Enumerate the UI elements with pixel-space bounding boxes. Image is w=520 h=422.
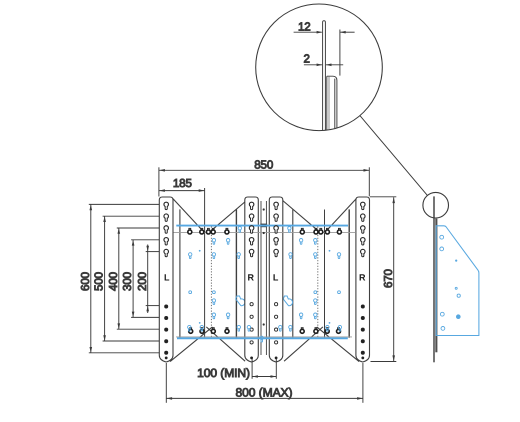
detail callout small circle [423,192,449,218]
wire arm edge top (grey) [174,231,356,233]
blue side profile plate [436,226,479,336]
wire bay3 vertical strip edge a [348,209,350,337]
rail1 keyholes column [164,202,169,257]
wire bay3 vertical strip edge c [292,210,294,338]
wire bay1 top diagonal to rail2 [212,199,248,230]
wire bay1 vertical strip edge a [179,209,181,337]
wire arm edge bottom (grey) [176,336,352,338]
dimension 100 (MIN) bottom [197,359,276,380]
rail 1 (L) outline [159,197,173,362]
wire bay3 top diagonal from rail4 [327,199,356,230]
rail3 lower holes [275,303,278,344]
rail3 keyholes column [274,202,279,257]
svg-text:2: 2 [303,53,309,66]
wire bay3 hidden edge (dotted) [317,227,319,339]
svg-text:500: 500 [93,272,106,291]
dimension 185 top [159,177,204,192]
wire bay3 bottom diagonal to rail4 [317,327,359,362]
centre link dots [263,208,265,325]
svg-text:200: 200 [136,272,149,291]
fastener row top bay1 [188,228,229,234]
svg-text:R: R [359,273,366,283]
node blue keyhole blob at rail2 edge [236,296,245,306]
svg-text:L: L [164,273,170,283]
dimension 800 (MAX) bottom [166,363,363,403]
wire bay1 top diagonal from rail1 [173,199,202,230]
svg-text:L: L [273,273,279,283]
fastener row bottom bay1 [189,328,229,334]
svg-text:850: 850 [254,159,273,172]
dimension 300 left [121,240,159,318]
wire bay3 top diagonal to rail3 [281,199,317,230]
blue alternate-position overlay (behind rails) [236,296,293,306]
svg-text:300: 300 [121,272,134,291]
wire bay1 bottom diagonal to rail2 [206,327,245,361]
wire centre link left edge [260,201,262,355]
node blue keyhole blob at rail3 edge [283,296,292,306]
wire bay3 vertical strip edge b [324,210,326,338]
rail4 lower dots [361,305,365,360]
dimension 600 left [79,204,159,352]
blue overlay lines (over rails) [174,226,356,339]
wire bay1 vertical strip edge b (185 extension continues) [204,188,206,338]
wire bay1 vertical strip edge c [235,210,237,338]
fastener row bottom bay3 [300,328,340,334]
svg-text:400: 400 [107,272,120,291]
blue small circles bay1 [189,250,216,324]
rail 4 (R) outline [356,197,370,362]
blue keyholes bay1 [188,227,251,332]
side view wall plate (edge-on) [433,196,434,362]
blue small circles bay3 [314,250,341,324]
dimension 200 left (arrows outside) [136,245,160,314]
wire centre link right edge [265,201,267,355]
wire blue top line (MIN position) [176,225,348,227]
svg-text:R: R [247,273,254,283]
rail1 lower dots [164,305,168,360]
blue side profile holes [440,235,461,330]
rail 2 (R) outline [245,197,258,362]
dimension 850 top [159,159,369,197]
dimension 12 in detail [294,20,355,75]
svg-text:185: 185 [173,177,192,190]
rail2 lower holes [250,303,253,344]
dimension 670 right [370,197,396,362]
blue keyholes bay3 [279,227,342,332]
rail4 keyholes column [361,202,366,257]
wire bay1 bottom diagonal to rail1 [170,327,212,362]
node blue mini centre [260,336,263,342]
centre link top bar [260,224,267,228]
dimension 500 left [93,216,160,341]
svg-text:600: 600 [79,272,92,291]
bracket plate cross-section [327,76,337,130]
svg-text:12: 12 [298,20,311,33]
wire bay1 hidden edge (dotted) [210,227,212,339]
wall plate cross-section (2mm) [323,21,326,131]
leader line from detail circle to side view [360,116,428,196]
rail2 keyholes column [249,202,254,257]
wire blue bottom line (MIN position) [177,337,348,339]
detail circle outline [256,4,383,131]
svg-text:670: 670 [382,269,395,288]
rail 3 (L) outline [269,197,283,362]
side view rail bar (edge-on) [435,219,437,353]
dimension 2 in detail [303,53,343,67]
wire bay3 bottom diagonal to rail3 [284,327,323,361]
fastener row top bay3 [300,228,341,234]
svg-text:100 (MIN): 100 (MIN) [197,366,250,380]
dimension 400 left [107,228,159,329]
svg-text:800 (MAX): 800 (MAX) [236,386,293,400]
